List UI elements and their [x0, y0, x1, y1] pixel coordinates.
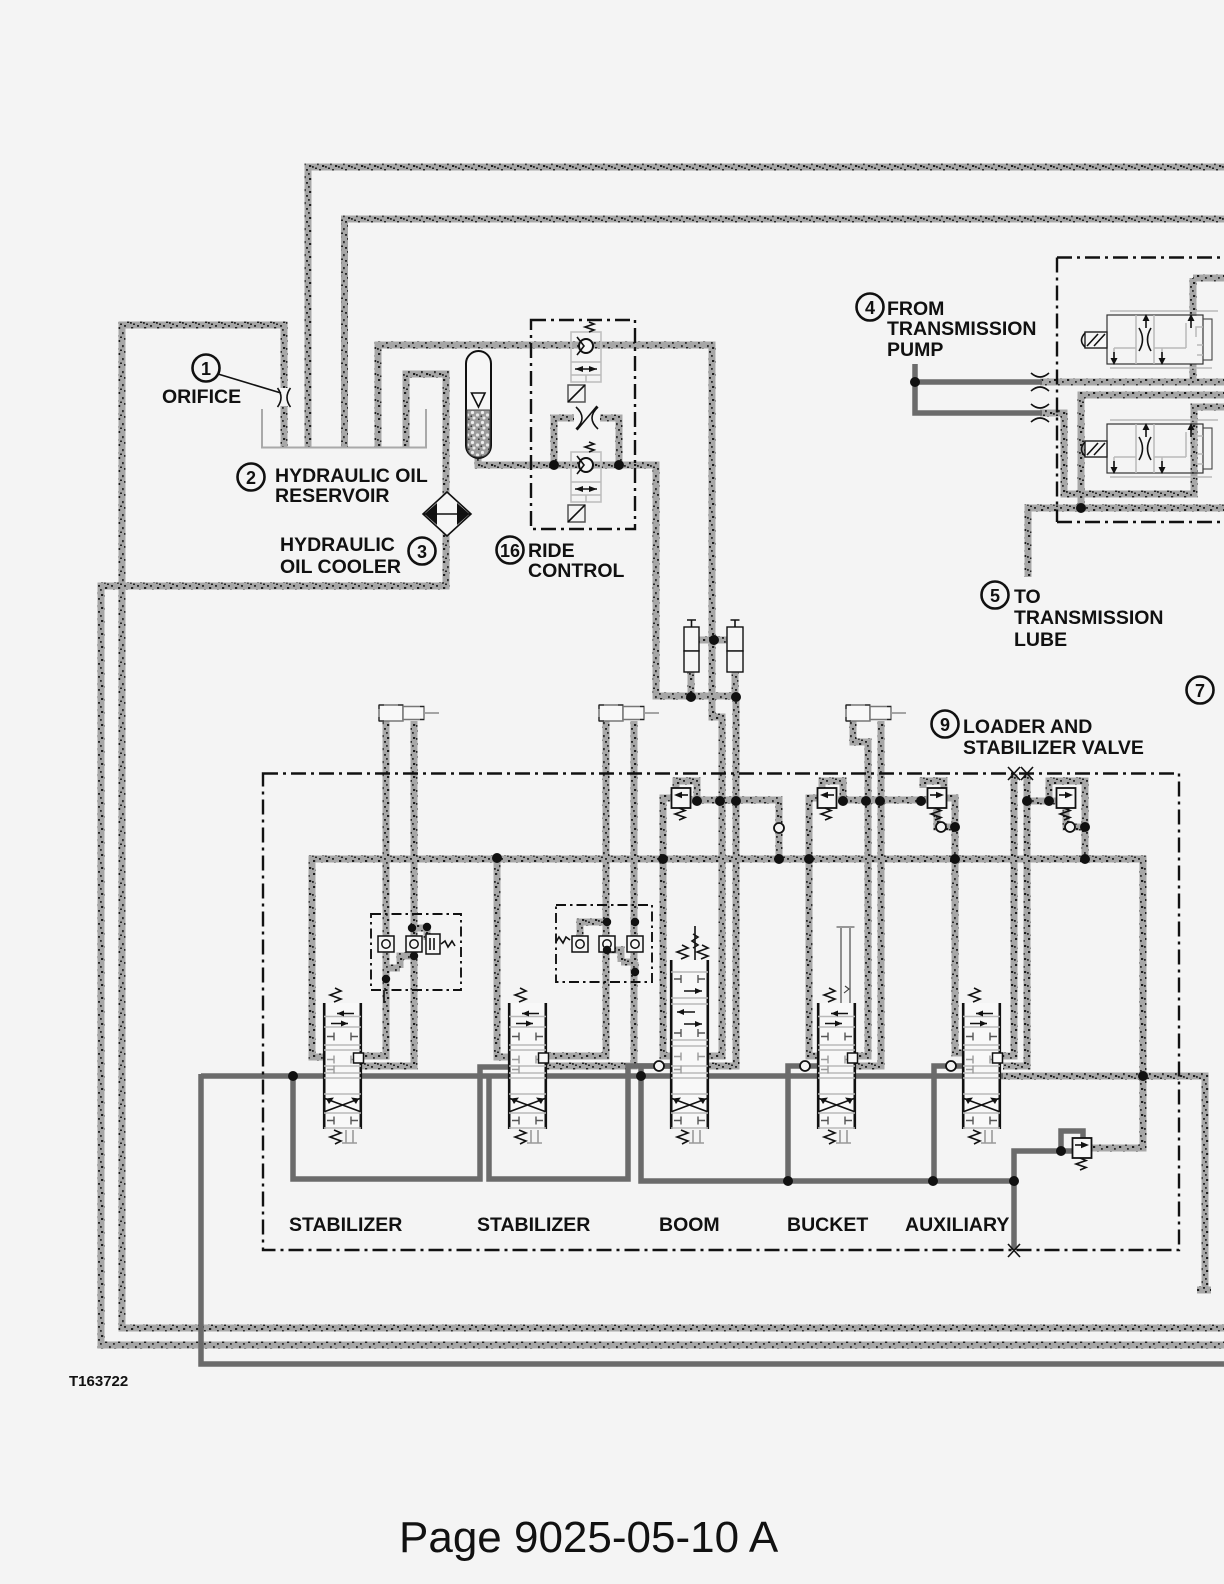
wire: transmission lube line	[1028, 508, 1224, 577]
orifice port: aux relief branch	[1065, 822, 1075, 832]
svg-text:AUXILIARY: AUXILIARY	[905, 1214, 1009, 1236]
junction: gallery to bucket	[804, 854, 814, 864]
pilot-operated check valve lower (ride control)	[568, 442, 601, 522]
junction: bucket relief pilot	[838, 796, 848, 806]
svg-text:BUCKET: BUCKET	[787, 1214, 868, 1236]
bucket cylinder	[846, 705, 906, 721]
wire: stabilizer 2 cylinder line A	[546, 721, 606, 1056]
wire: ride control line down to boom spool port A	[709, 640, 722, 1056]
wire: pressure gallery with left drop to stabilizer spool	[312, 859, 1143, 1148]
svg-text:TRANSMISSION: TRANSMISSION	[1014, 607, 1164, 629]
junction: gallery to aux relief	[1080, 854, 1090, 864]
svg-text:BOOM: BOOM	[659, 1214, 720, 1236]
directional spool: bucket	[817, 988, 858, 1144]
wire: orifice return loop (top box and left long riser to bottom pipe)	[122, 325, 1224, 1328]
junction: return main at stabilizer loop	[288, 1071, 298, 1081]
wire: accumulator line through ride control to flow restrictors	[478, 456, 736, 696]
junction: relief row at ride line A	[715, 796, 725, 806]
solenoid valve 2 (transmission)	[1082, 420, 1219, 477]
svg-text:LOADER AND: LOADER AND	[963, 716, 1092, 738]
wire: boom circuit relief output row	[690, 800, 779, 859]
node 9 callout: loader and stabilizer valve	[932, 711, 1144, 760]
plugged port mark: aux line B	[1021, 767, 1033, 780]
wire: stabilizer 1 cylinder line B	[362, 721, 414, 1066]
wire: stabilizer 2 cylinder line B	[546, 721, 634, 1066]
wire: cooler loop (reservoir, up over, through cooler, bottom run, left riser)	[101, 374, 1224, 1345]
svg-text:9: 9	[940, 715, 950, 735]
svg-text:PUMP: PUMP	[887, 339, 943, 361]
svg-text:STABILIZER: STABILIZER	[477, 1214, 590, 1236]
junction: bottom relief inlet	[1056, 1146, 1066, 1156]
wire: auxiliary supply riser from relief 3	[947, 798, 962, 1053]
svg-text:RIDE: RIDE	[528, 540, 575, 562]
wire: bucket relief pilot loop	[822, 781, 843, 800]
junction: relief 3 inlet	[916, 796, 926, 806]
directional spool: auxiliary	[962, 988, 1003, 1144]
junction: lube line tee	[1076, 503, 1086, 513]
junction: bucket row at cylinder line A	[861, 796, 871, 806]
wire: boom return port branch	[641, 1066, 1014, 1181]
pilot-operated check valve upper (ride control)	[568, 322, 601, 402]
flow restrictor cartridge left	[684, 620, 699, 672]
junction: return main at boom	[636, 1071, 646, 1081]
wire: second ride control line down to boom spool port B	[709, 697, 736, 1066]
svg-text:STABILIZER VALVE: STABILIZER VALVE	[963, 737, 1144, 759]
svg-text:16: 16	[500, 541, 520, 561]
junction: cartridge drain right	[731, 692, 741, 702]
stabilizer 2 cylinder	[599, 705, 659, 721]
junction: gallery to boom	[658, 854, 668, 864]
hydraulic oil reservoir tank	[262, 409, 426, 448]
wire: auxiliary return port drop	[934, 1066, 962, 1181]
directional spool: stabilizer 2	[508, 988, 549, 1144]
junction: relief 3 orifice branch	[950, 822, 960, 832]
ride control dash-dot enclosure	[531, 320, 635, 529]
wire: reservoir to ride control supply line, down right side	[378, 345, 712, 640]
svg-text:T163722: T163722	[69, 1373, 128, 1390]
wire: auxiliary port line B from cap	[1003, 774, 1027, 1066]
junction: restrictor cartridge tee	[709, 635, 719, 645]
solenoid valve 1 (transmission)	[1082, 311, 1219, 368]
stabilizer 2 pilot valve cluster	[556, 905, 652, 982]
wire: solenoid return line to right edge	[1081, 395, 1224, 508]
wire: boom relief pilot loop	[676, 781, 697, 800]
accumulator	[466, 351, 491, 458]
orifice port: relief 3 branch	[936, 822, 946, 832]
svg-text:HYDRAULIC OIL: HYDRAULIC OIL	[275, 465, 428, 487]
wire: ride control bypass loop with restrictor	[554, 418, 619, 465]
plugged port mark: bottom drain	[1008, 1244, 1020, 1257]
wire: bucket return port drop	[788, 1066, 817, 1181]
svg-text:OIL COOLER: OIL COOLER	[280, 556, 401, 578]
node 3 callout: hydraulic oil cooler	[280, 534, 436, 578]
loader and stabilizer valve dash-dot enclosure	[263, 774, 1179, 1251]
wire: suction pipe B from reservoir to top right edge	[345, 219, 1224, 448]
boom pilot line	[692, 926, 698, 960]
svg-text:LUBE: LUBE	[1014, 629, 1067, 651]
node 7 callout	[1187, 677, 1214, 704]
wire: relief 3 pilot loop	[923, 781, 944, 788]
svg-text:4: 4	[865, 298, 875, 318]
orifice port: bucket return	[800, 1061, 810, 1071]
wire: tank return left drop and bottom run to right edge	[201, 1074, 1224, 1364]
boom circuit relief valve	[672, 788, 691, 820]
wire: suction pipe A from reservoir to top right edge	[308, 167, 1224, 448]
wire: boom supply riser through relief and gallery	[663, 798, 672, 1056]
node 4 callout: from transmission pump	[857, 294, 1037, 362]
svg-text:1: 1	[201, 359, 211, 379]
bucket pilot lines	[837, 927, 855, 1003]
svg-text:Page 9025-05-10 A: Page 9025-05-10 A	[399, 1513, 779, 1562]
junction: return bottom at bucket leg	[783, 1176, 793, 1186]
wire: left cartridge drain stub	[688, 670, 695, 697]
svg-text:HYDRAULIC: HYDRAULIC	[280, 534, 395, 556]
stabilizer 1 cylinder	[379, 705, 439, 721]
circuit relief valve 3	[928, 788, 947, 820]
junction: return main at gallery leg	[1138, 1071, 1148, 1081]
low pressure relief valve (bottom right)	[1073, 1138, 1092, 1170]
variable restrictor on ride control bypass	[574, 406, 600, 430]
orifice on reservoir return line	[275, 388, 293, 407]
orifice port: auxiliary return	[946, 1061, 956, 1071]
wire: main tank return line	[201, 1073, 1003, 1079]
svg-text:2: 2	[246, 468, 256, 488]
orifice port: gallery pilot drop	[774, 823, 784, 833]
svg-text:5: 5	[990, 586, 1000, 606]
orifice port: boom return	[654, 1061, 664, 1071]
wire: stabilizer 1 cylinder line A	[362, 721, 386, 1056]
wire: transmission pump line 1 textured run to solenoid valve 1	[1040, 278, 1224, 382]
junction: return bottom at aux leg	[928, 1176, 938, 1186]
junction: bucket row at cylinder line B	[875, 796, 885, 806]
transmission solenoid valves dash-dot enclosure	[1057, 258, 1224, 523]
node 5 callout: to transmission lube	[982, 582, 1164, 652]
wire: bucket cylinder line A with jog	[853, 721, 868, 1056]
svg-text:TRANSMISSION: TRANSMISSION	[887, 318, 1037, 340]
junction: ride control bypass right	[614, 460, 624, 470]
wire: pump feed stub and branch	[915, 364, 1042, 413]
junction: pump feed node	[910, 377, 920, 387]
wire: bucket cylinder line B	[856, 721, 881, 1066]
wire: tank return right leg to open end	[1000, 1076, 1211, 1290]
node 16 callout: ride control	[497, 537, 625, 583]
junction: cartridge drain left	[686, 692, 696, 702]
wire: stabilizer 1 return loop	[293, 1067, 508, 1179]
wire: line to plugged port on box edge	[1011, 1181, 1017, 1250]
junction: aux relief pilot	[1044, 796, 1054, 806]
wire: bucket relief output row to relief 3	[838, 797, 927, 804]
svg-text:STABILIZER: STABILIZER	[289, 1214, 402, 1236]
flow restrictor cartridge right	[727, 620, 743, 672]
wire: relief 3 lower orifice branch	[937, 808, 955, 858]
svg-text:CONTROL: CONTROL	[528, 560, 624, 582]
auxiliary circuit relief valve	[1057, 788, 1076, 820]
wire: auxiliary relief pilot loop to gallery	[1049, 781, 1085, 859]
wire: stabilizer 2 return loop	[489, 1066, 670, 1179]
junction: gallery to auxiliary	[950, 854, 960, 864]
bucket circuit relief valve	[818, 788, 837, 820]
wire: auxiliary port line A from cap	[1003, 774, 1014, 1056]
wire: transmission pump line 2 textured run to solenoid valve 2	[1040, 407, 1224, 494]
wire: bucket supply riser through relief and gallery	[809, 798, 817, 1056]
coupling on pump line 1	[1031, 373, 1049, 391]
svg-text:3: 3	[417, 542, 427, 562]
junction: gallery pilot drop	[774, 854, 784, 864]
wire: gallery drop to stabilizer 2 spool	[497, 858, 508, 1057]
junction: ride control bypass left	[549, 460, 559, 470]
svg-text:7: 7	[1195, 681, 1205, 701]
node 2 callout: hydraulic oil reservoir	[238, 464, 428, 508]
wire: restrictor cartridge tee stubs	[696, 637, 730, 644]
directional spool: boom (4-position)	[670, 945, 709, 1144]
svg-text:RESERVOIR: RESERVOIR	[275, 485, 390, 507]
directional spool: stabilizer 1	[323, 988, 364, 1144]
junction: aux relief inlet	[1022, 796, 1032, 806]
svg-text:FROM: FROM	[887, 298, 944, 320]
svg-text:TO: TO	[1014, 586, 1041, 608]
wire: return to bottom-right relief valve	[1014, 1151, 1073, 1181]
wire: auxiliary relief lower orifice branch	[1066, 808, 1085, 827]
svg-text:ORIFICE: ORIFICE	[162, 386, 241, 408]
wire: right cartridge drain stub	[732, 670, 739, 697]
junction: relief row at ride line B	[731, 796, 741, 806]
wire: bottom-right relief pilot loop	[1061, 1131, 1083, 1151]
node 1 callout: orifice	[162, 355, 281, 409]
junction: gallery to stabilizer 2	[492, 853, 502, 863]
junction: return bottom at relief leg	[1009, 1176, 1019, 1186]
wire: auxiliary relief inlet stub	[1027, 798, 1056, 805]
stabilizer 1 pilot valve cluster	[371, 914, 461, 1003]
plugged port mark: aux line A	[1008, 767, 1020, 780]
hydraulic oil cooler	[423, 492, 471, 536]
coupling on pump line 2	[1031, 404, 1049, 422]
junction: boom relief outlet	[692, 796, 702, 806]
junction: aux relief orifice branch	[1080, 822, 1090, 832]
